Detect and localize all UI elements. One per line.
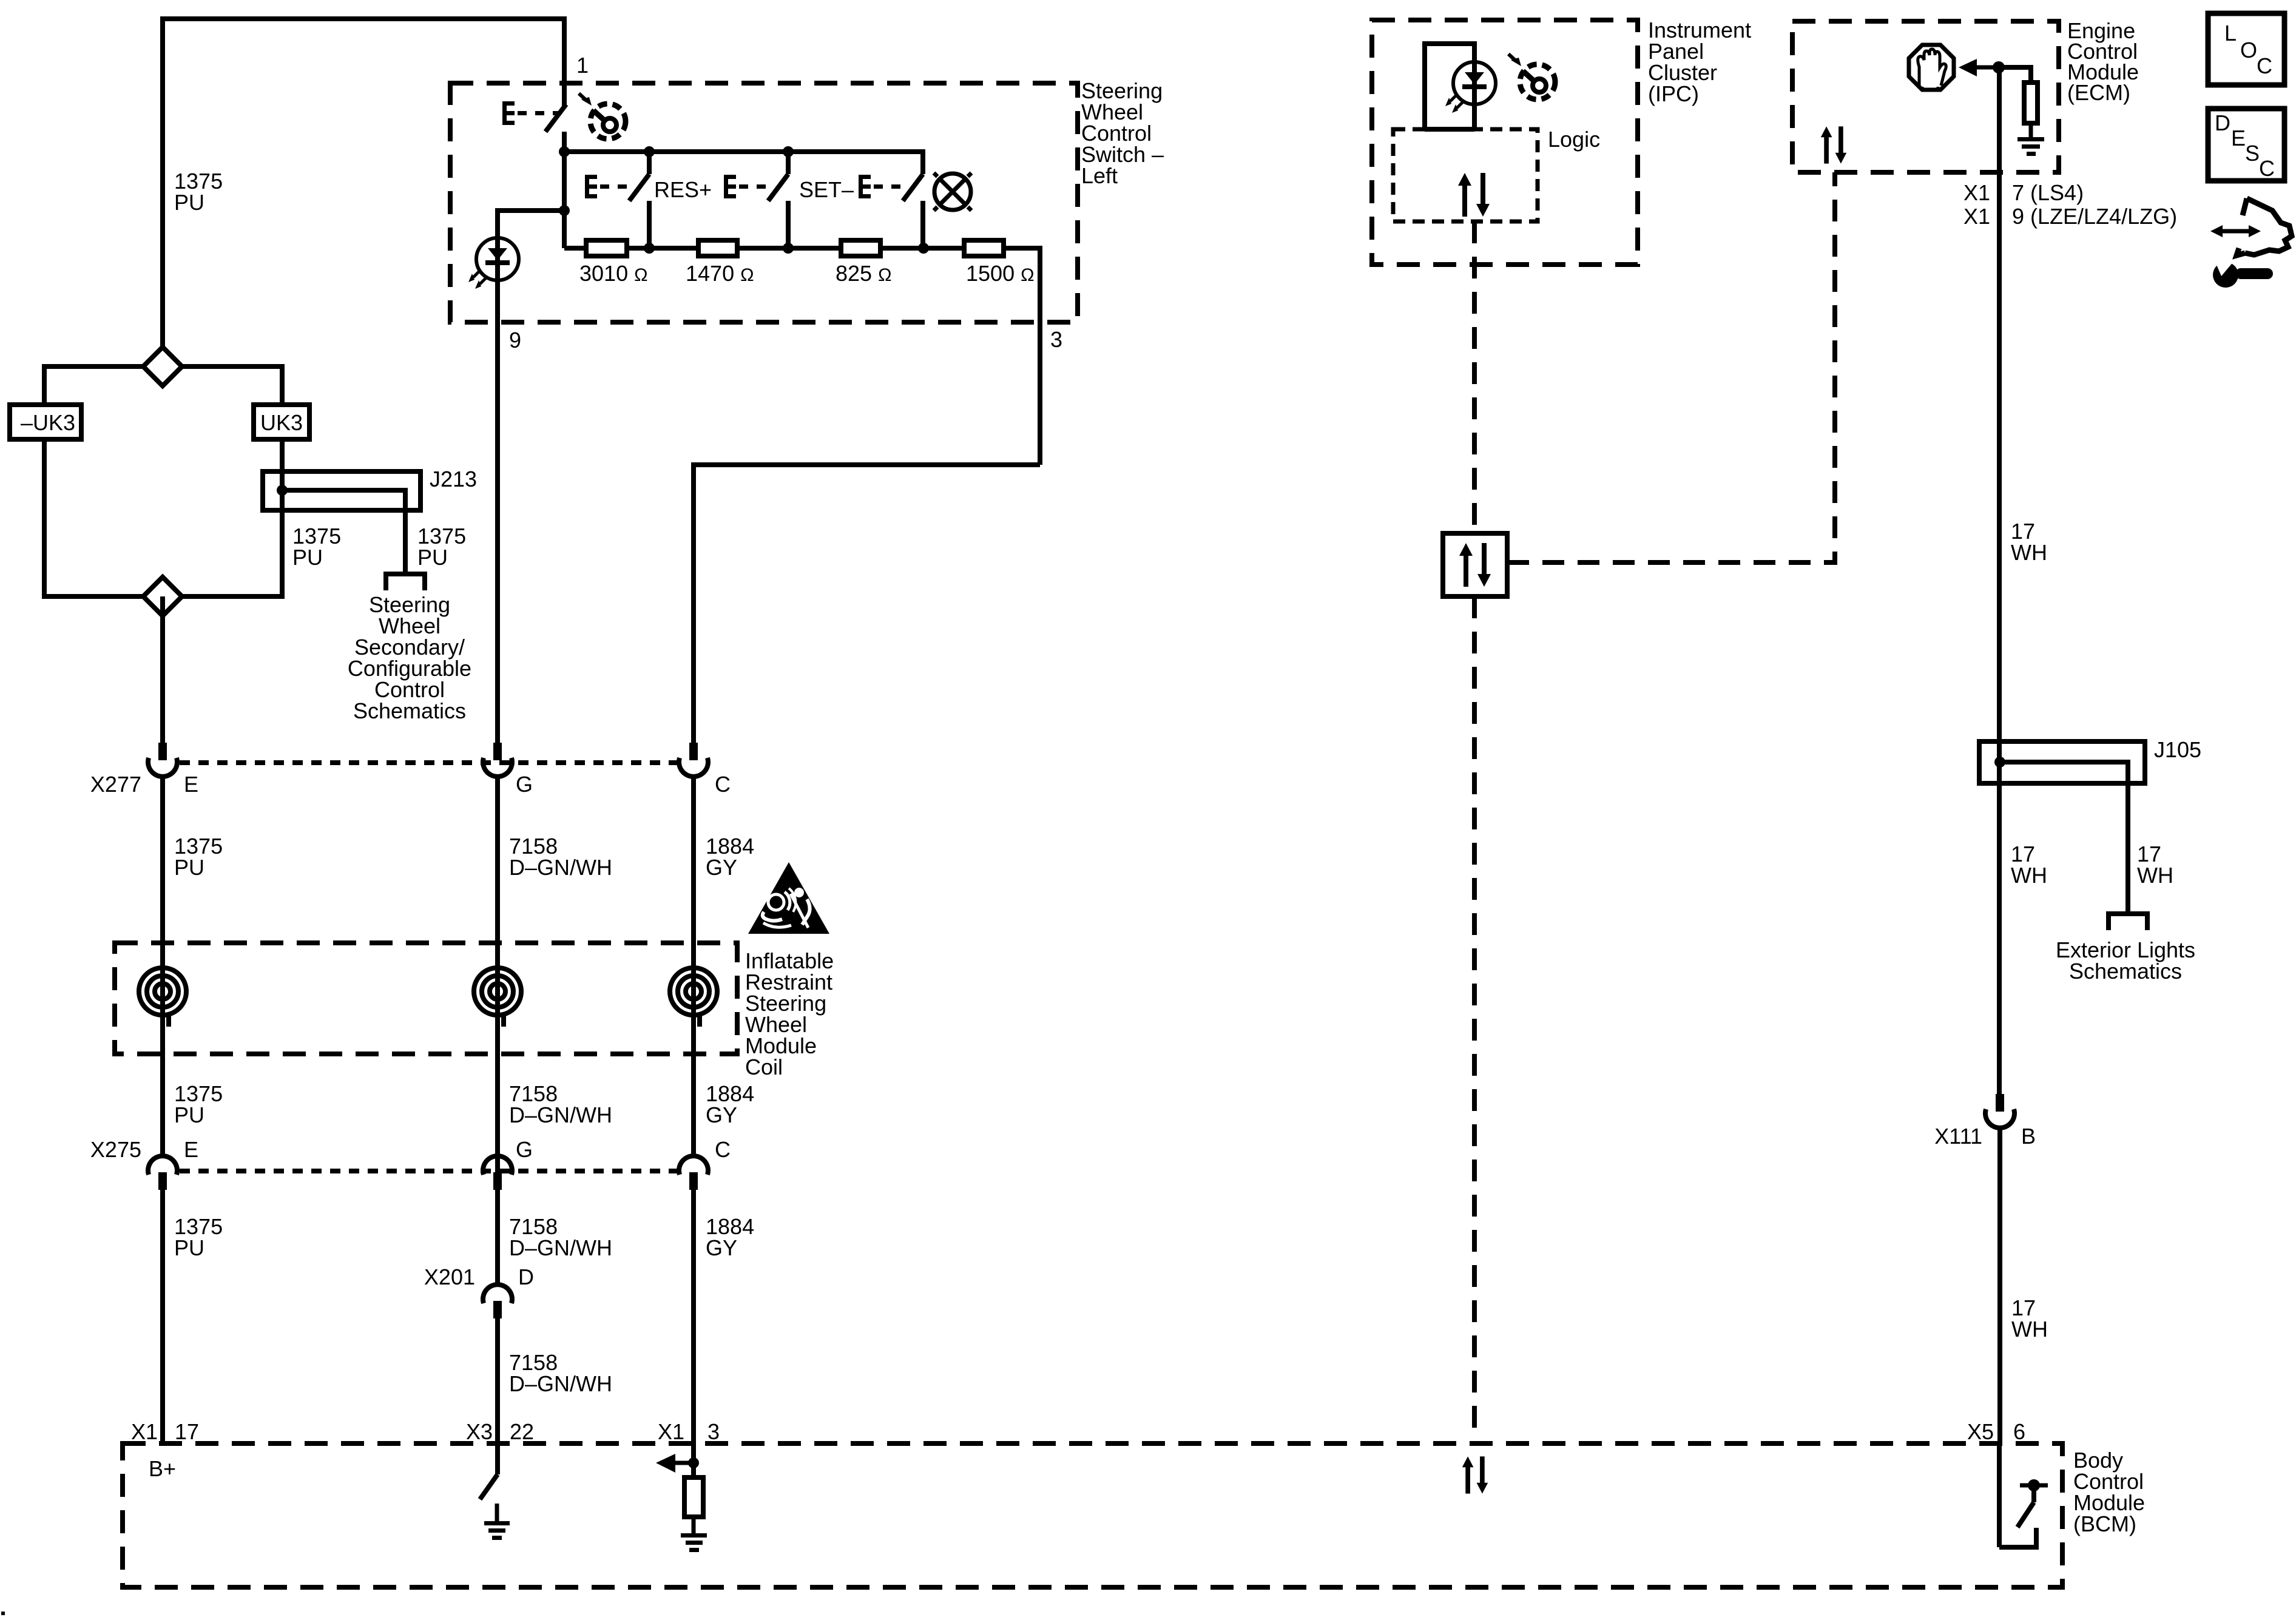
wire 1884 GY X275 to BCM — [691, 1190, 696, 1446]
svg-text:D–GN/WH: D–GN/WH — [509, 855, 612, 880]
wire: LED cathode down to X277-G (pin 9) — [495, 280, 500, 744]
option box -UK3 — [10, 405, 81, 439]
ECM internal ground — [2017, 137, 2044, 156]
IPC gauge icon — [1508, 54, 1555, 100]
svg-text:GY: GY — [706, 1235, 737, 1260]
svg-text:PU: PU — [174, 190, 204, 215]
ECM pull resistor — [2024, 83, 2038, 123]
wire: splice down to X277-E — [160, 596, 165, 743]
junction dot bus/S1 — [559, 146, 570, 157]
svg-text:GY: GY — [706, 855, 737, 880]
svg-text:B+: B+ — [149, 1456, 176, 1481]
BCM ground switch blade — [480, 1474, 498, 1499]
svg-text:L: L — [2224, 21, 2237, 46]
svg-text:Logic: Logic — [1548, 127, 1600, 152]
svg-text:X3: X3 — [466, 1419, 493, 1444]
wire resistor to ECM ground — [2029, 123, 2033, 139]
svg-text:GY: GY — [706, 1102, 737, 1127]
wire: left branch down to -UK3 — [42, 364, 47, 405]
switch SET- actuator E — [724, 175, 766, 198]
wire: drop to steering wheel control switch pin 1 — [562, 16, 567, 107]
off-page connector to steering wheel secondary schematics — [386, 574, 425, 590]
BCM switch stub — [2031, 1485, 2036, 1502]
gateway arrows — [1459, 543, 1491, 587]
wire: switch row top bus — [564, 149, 923, 154]
svg-text:6: 6 — [2013, 1419, 2025, 1444]
switch S1 (cruise on/off) actuator E — [502, 101, 544, 125]
junction dot bus/RES+ — [644, 146, 655, 157]
wire resistor to ground — [692, 1517, 696, 1535]
resistor 825 ohm — [841, 240, 880, 256]
ECM stop-hand octagon — [1909, 45, 1954, 91]
IPC indicator LED — [1445, 62, 1496, 113]
wire: battery feed 1375 PU top run — [163, 16, 564, 21]
svg-text:C: C — [2259, 156, 2275, 181]
BCM serial data arrows — [1462, 1456, 1488, 1493]
switch RES+ pivot wire — [647, 152, 652, 174]
wire: pin 3 run across to X277-C — [694, 462, 1040, 467]
resistor 1500 ohm — [964, 240, 1004, 256]
LED (switch backlight) — [468, 238, 519, 289]
wire 7158 D-GN/WH X277 to coil — [495, 777, 500, 1284]
svg-text:825 Ω: 825 Ω — [836, 261, 892, 286]
connector X277-G — [483, 743, 512, 777]
serial data gateway box — [1443, 533, 1507, 596]
loop bottom joins logic box — [1425, 127, 1474, 132]
wire: below -UK3 — [42, 439, 47, 599]
module box: Inflatable Restraint Steering Wheel Module Coil (dashed) — [115, 943, 737, 1054]
stray mark bottom-left — [1, 1612, 5, 1615]
svg-text:C: C — [2257, 53, 2272, 78]
svg-text:J105: J105 — [2154, 737, 2201, 762]
wire 7158 D-GN/WH X201 to BCM — [495, 1318, 500, 1446]
module box: Steering Wheel Control Switch - Left (dashed) — [450, 83, 1078, 322]
IPC logic serial arrows — [1458, 173, 1490, 217]
module box: Instrument Panel Cluster IPC (dashed) — [1372, 20, 1638, 265]
BCM switch fixed contact L — [1999, 1528, 2036, 1547]
module box: Engine Control Module ECM (dashed) — [1792, 21, 2059, 172]
svg-text:E: E — [184, 772, 198, 797]
switch S1 fixed contact wire down to bus — [562, 132, 567, 248]
wire 1375 PU X275 to BCM — [160, 1190, 165, 1446]
svg-text:X1: X1 — [1963, 180, 1990, 205]
svg-text:3: 3 — [1050, 327, 1062, 352]
resistor 3010 ohm — [586, 240, 627, 256]
diagnostic icon (car outline, double arrow, wrench) — [2210, 198, 2292, 288]
switch SET- blade — [768, 174, 788, 201]
junction dot inside J105 — [1994, 757, 2005, 768]
svg-text:Schematics: Schematics — [353, 698, 466, 723]
coil (E circuit) — [139, 968, 186, 1027]
reference box LOC — [2208, 13, 2284, 85]
svg-text:UK3: UK3 — [260, 410, 303, 435]
wire: 1375 PU left vertical drop to splice — [160, 16, 165, 349]
svg-text:X5: X5 — [1967, 1419, 1994, 1444]
wire: splice horizontal bus upper — [44, 364, 282, 369]
BCM input wire (X5-6) — [1997, 1443, 2002, 1547]
svg-text:Coil: Coil — [745, 1055, 783, 1079]
svg-text:–UK3: –UK3 — [21, 410, 75, 435]
svg-text:PU: PU — [174, 1102, 204, 1127]
switch RES+ blade — [629, 174, 649, 201]
connector X111-B — [1985, 1094, 2014, 1128]
coil (G circuit) — [474, 968, 521, 1027]
svg-text:RES+: RES+ — [654, 177, 712, 202]
junction dot (X1-3) — [688, 1457, 699, 1468]
svg-text:X277: X277 — [90, 772, 141, 797]
inline harness dotted line X277 — [180, 760, 678, 765]
connector X275-E — [148, 1156, 177, 1190]
module box: Body Control Module BCM (dashed) — [123, 1443, 2062, 1587]
splice diamond lower — [143, 577, 182, 616]
BCM switch pivot bar — [2020, 1484, 2048, 1488]
junction dot bus/lamp lower — [918, 243, 929, 254]
connector X201-D — [483, 1284, 512, 1318]
switch SET- pivot wire — [786, 152, 791, 174]
gauge icon (cruise indicator) — [579, 93, 626, 139]
serial arrow into BCM logic — [674, 1461, 694, 1465]
svg-text:J213: J213 — [430, 467, 477, 491]
wire: splice horizontal bus lower — [44, 594, 282, 599]
wire: ECM output 17 WH down through J105 to X111 — [1997, 67, 2002, 1097]
svg-text:B: B — [2021, 1124, 2036, 1149]
svg-text:D–GN/WH: D–GN/WH — [509, 1235, 612, 1260]
wire: X111 to BCM X5-6 17 WH — [1997, 1129, 2002, 1446]
svg-text:G: G — [516, 772, 533, 797]
BCM internal ground — [484, 1504, 510, 1540]
lamp switch fixed contact — [920, 201, 925, 248]
svg-text:7 (LS4): 7 (LS4) — [2012, 180, 2084, 205]
illumination lamp symbol — [934, 173, 971, 211]
svg-text:9: 9 — [509, 328, 521, 353]
svg-text:S: S — [2245, 141, 2260, 166]
svg-text:D–GN/WH: D–GN/WH — [509, 1102, 612, 1127]
wire 1884 GY X277 to coil — [691, 777, 696, 1156]
svg-text:X1: X1 — [131, 1419, 158, 1444]
svg-text:X275: X275 — [90, 1137, 141, 1162]
BCM resistor ground — [681, 1533, 707, 1552]
dashed serial wire gateway to ECM — [1507, 172, 1835, 562]
IPC logic box (dashed) — [1393, 129, 1538, 221]
wire: UK3 through splice J213 — [280, 439, 285, 599]
svg-text:SET–: SET– — [799, 177, 854, 202]
splice diamond upper — [143, 347, 182, 386]
switch SET- fixed contact — [786, 201, 791, 248]
switch RES+ fixed contact — [647, 201, 652, 248]
BCM pull resistor — [684, 1477, 703, 1517]
dashed serial wire IPC logic to gateway — [1472, 221, 1477, 533]
ECM serial arrows — [1821, 126, 1847, 163]
svg-text:C: C — [715, 1137, 731, 1162]
off-page connector to exterior lights schematics — [2109, 914, 2147, 930]
svg-text:X1: X1 — [1963, 204, 1990, 229]
svg-text:WH: WH — [2011, 863, 2047, 888]
BCM switch pivot dot — [2028, 1479, 2040, 1491]
resistor ladder bus — [564, 246, 1040, 251]
connector X277-E — [148, 743, 177, 777]
lamp switch blade — [903, 174, 923, 201]
splice J105 — [1979, 741, 2145, 783]
svg-text:X201: X201 — [424, 1264, 475, 1289]
junction dot bus/SET- — [783, 146, 794, 157]
connector X275-C — [679, 1156, 708, 1190]
wire: J105 branch to exterior lights — [2125, 783, 2130, 914]
lamp switch actuator E — [859, 175, 900, 198]
svg-text:D: D — [2215, 110, 2230, 135]
wire: LED anode stub — [495, 208, 500, 238]
svg-text:Schematics: Schematics — [2069, 959, 2182, 984]
resistor 1470 ohm — [698, 240, 737, 256]
ECM wire to pull resistor — [1999, 67, 2031, 83]
svg-text:1500 Ω: 1500 Ω — [966, 261, 1035, 286]
wire: LED top to S1 fixed node — [498, 208, 564, 213]
svg-text:1: 1 — [576, 53, 589, 78]
IPC indicator branch loop — [1425, 44, 1474, 129]
svg-text:WH: WH — [2011, 1317, 2048, 1342]
junction dot LED branch — [559, 205, 570, 216]
connector X277-C — [679, 743, 708, 777]
dashed serial wire gateway to BCM — [1472, 596, 1477, 1443]
wire: J213 internal jumper — [282, 490, 405, 573]
reference box DESC — [2208, 109, 2284, 181]
svg-text:X111: X111 — [1934, 1124, 1982, 1149]
svg-text:3010 Ω: 3010 Ω — [579, 261, 648, 286]
svg-text:PU: PU — [174, 855, 204, 880]
connector X275-G — [483, 1156, 512, 1190]
wire: right branch down to UK3 — [280, 364, 285, 405]
J105 internal jumper — [2000, 762, 2128, 783]
option box UK3 — [254, 405, 309, 439]
svg-text:C: C — [715, 772, 731, 797]
ECM serial input arrow — [1975, 66, 1999, 70]
coil (C circuit) — [670, 968, 717, 1027]
switch RES+ actuator E — [585, 175, 627, 198]
svg-text:17: 17 — [175, 1419, 199, 1444]
svg-text:3: 3 — [707, 1419, 720, 1444]
junction dot bus/SET- lower — [783, 243, 794, 254]
wire LED to logic — [1472, 104, 1477, 129]
svg-text:WH: WH — [2011, 540, 2047, 565]
svg-text:D–GN/WH: D–GN/WH — [509, 1371, 612, 1396]
wire: down to X277-C — [691, 462, 696, 744]
svg-text:PU: PU — [417, 545, 448, 570]
svg-text:D: D — [518, 1264, 534, 1289]
svg-text:WH: WH — [2137, 863, 2173, 888]
svg-text:E: E — [184, 1137, 198, 1162]
switch S1 blade — [545, 104, 566, 132]
svg-text:(ECM): (ECM) — [2067, 80, 2130, 105]
svg-text:22: 22 — [510, 1419, 534, 1444]
wire: bus corner down to lamp switch — [920, 149, 925, 174]
wire: pin 3 drop from resistor ladder — [1038, 246, 1042, 465]
BCM sense wire (X1-3) — [691, 1443, 696, 1477]
svg-text:PU: PU — [174, 1235, 204, 1260]
svg-text:PU: PU — [292, 545, 323, 570]
svg-text:Left: Left — [1081, 163, 1118, 188]
wire 7158 D-GN/WH X275 to X201 — [495, 1190, 500, 1284]
svg-text:G: G — [516, 1137, 533, 1162]
svg-text:O: O — [2240, 38, 2257, 62]
inline harness dotted line X275 — [180, 1169, 678, 1173]
BCM ground switch wire (X3-22) — [495, 1443, 500, 1474]
svg-text:(BCM): (BCM) — [2073, 1511, 2136, 1536]
junction inside J213 — [277, 485, 288, 496]
svg-text:9 (LZE/LZ4/LZG): 9 (LZE/LZ4/LZG) — [2012, 204, 2177, 229]
svg-text:1470 Ω: 1470 Ω — [686, 261, 754, 286]
svg-text:E: E — [2231, 126, 2246, 150]
svg-text:(IPC): (IPC) — [1648, 81, 1699, 106]
ECM junction dot — [1993, 61, 2005, 73]
wire 1375 PU X277 to coil — [160, 777, 165, 1156]
svg-text:X1: X1 — [658, 1419, 684, 1444]
junction dot bus/RES+ lower — [644, 243, 655, 254]
BCM switch blade — [2017, 1502, 2034, 1527]
splice J213 — [263, 471, 420, 510]
SIR warning triangle — [748, 862, 829, 934]
